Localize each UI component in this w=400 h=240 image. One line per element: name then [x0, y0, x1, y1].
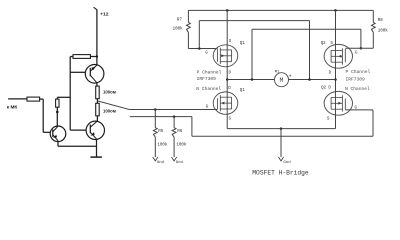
svg-text:P Channel: P Channel [197, 69, 222, 75]
svg-text:IRF7309: IRF7309 [197, 76, 217, 82]
svg-text:R5: R5 [158, 130, 164, 134]
svg-text:100ом: 100ом [103, 89, 116, 94]
svg-text:100ом: 100ом [103, 109, 116, 114]
svg-text:N Channel: N Channel [345, 86, 370, 92]
svg-text:к МК: к МК [7, 104, 18, 109]
svg-text:N Channel: N Channel [196, 86, 221, 92]
svg-text:P Channel: P Channel [346, 69, 371, 75]
svg-text:Q2: Q2 [321, 86, 326, 90]
svg-text:+12: +12 [100, 11, 109, 17]
svg-text:MOSFET H-Bridge: MOSFET H-Bridge [252, 170, 309, 177]
svg-text:R8: R8 [378, 19, 384, 23]
svg-text:+: + [289, 73, 292, 79]
svg-text:Gnd: Gnd [176, 160, 184, 165]
svg-text:100k: 100k [378, 28, 389, 33]
svg-text:M: M [280, 77, 284, 84]
svg-text:100k: 100k [176, 142, 187, 147]
svg-text:Q1: Q1 [240, 42, 245, 46]
svg-text:100k: 100k [157, 142, 168, 147]
svg-text:IRF7309: IRF7309 [346, 77, 366, 83]
svg-text:Gnd: Gnd [283, 160, 291, 165]
svg-text:Q1: Q1 [240, 89, 245, 93]
svg-text:Gnd: Gnd [157, 160, 165, 165]
svg-text:100k: 100k [173, 27, 184, 32]
svg-text:R6: R6 [177, 130, 183, 134]
svg-text:Q2: Q2 [321, 42, 326, 46]
svg-text:R7: R7 [177, 19, 183, 23]
svg-text:M1: M1 [275, 70, 280, 74]
